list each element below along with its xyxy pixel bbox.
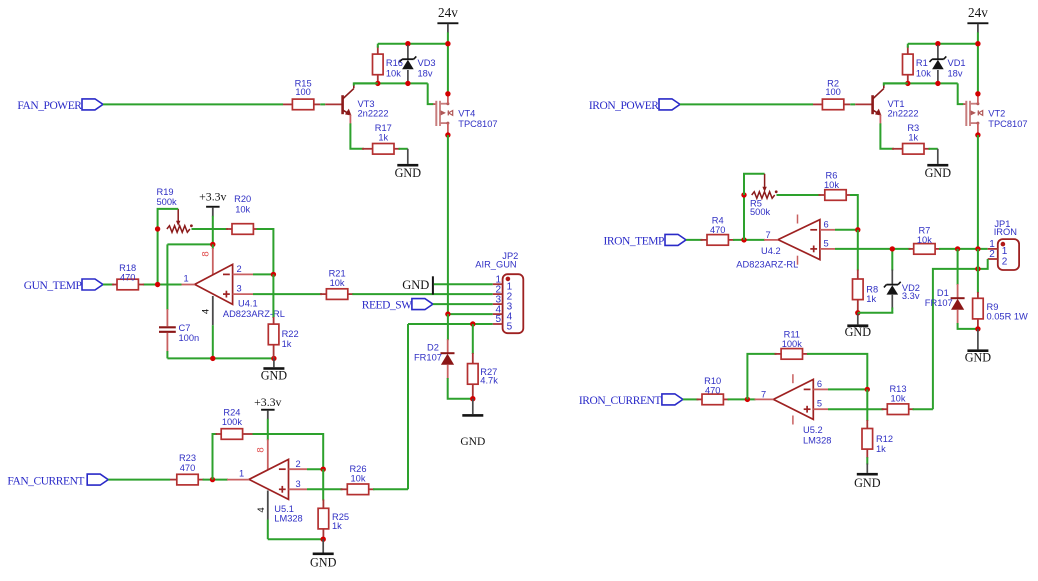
resistor R15 xyxy=(283,78,343,109)
junction VT4 drain xyxy=(445,91,450,96)
resistor R3 xyxy=(892,123,930,154)
op-amp U5.2 pin5 lead xyxy=(813,408,828,410)
svg-text:R8: R8 xyxy=(866,284,878,294)
wire VT4 source down to JP2 pin4 node xyxy=(447,135,449,314)
svg-text:GND: GND xyxy=(402,278,429,292)
port FAN_CURRENT xyxy=(7,474,108,487)
svg-text:1k: 1k xyxy=(866,294,876,304)
junction R27 top / pin5 xyxy=(470,321,475,326)
op-amp U5.2 pin6 lead xyxy=(813,388,828,390)
wire VT3 emitter down to R17 xyxy=(350,123,364,148)
wire pin5 to R13 xyxy=(828,408,884,410)
wire gate jog down (right) xyxy=(958,83,964,104)
svg-text:U5.2: U5.2 xyxy=(803,425,823,435)
node +3.3v power symbol (upper left) xyxy=(199,190,226,245)
op-amp U5.1 output lead xyxy=(227,479,249,481)
svg-text:R6: R6 xyxy=(826,171,838,181)
ground under R12 xyxy=(866,457,868,464)
wire R13 to long vertical (right) xyxy=(913,408,933,410)
op-amp U4.1 pin3 lead xyxy=(233,293,253,295)
ground under R27 xyxy=(460,399,485,449)
junction top rail / 24v stem (right) xyxy=(975,41,980,46)
junction VT2 source xyxy=(975,132,980,137)
svg-text:8: 8 xyxy=(201,251,212,256)
node 24v power symbol (right) xyxy=(967,5,988,44)
svg-text:R11: R11 xyxy=(784,330,800,340)
svg-text:VT3: VT3 xyxy=(358,99,375,109)
svg-text:3.3v: 3.3v xyxy=(902,291,920,301)
svg-text:R24: R24 xyxy=(223,408,240,418)
svg-text:1: 1 xyxy=(239,469,244,479)
svg-text:1k: 1k xyxy=(908,133,918,143)
svg-text:+3.3v: +3.3v xyxy=(199,190,226,204)
resistor R10 xyxy=(697,376,730,405)
wire IRON_TEMP to R4 xyxy=(686,239,703,241)
wire pin3 to R26 xyxy=(307,488,343,490)
wire D2 to GND node xyxy=(448,378,473,399)
svg-text:GND: GND xyxy=(310,556,337,570)
svg-text:GND: GND xyxy=(925,166,952,180)
op-amp U4.2 power stubs xyxy=(797,215,799,265)
svg-text:FAN_CURRENT: FAN_CURRENT xyxy=(7,475,84,487)
wire FAN_POWER to R15 xyxy=(103,103,283,105)
svg-text:R1: R1 xyxy=(916,58,928,68)
svg-text:5: 5 xyxy=(824,239,829,249)
wire pin6 to R11 node xyxy=(828,388,867,390)
ground under R9 xyxy=(965,329,992,365)
wire FAN_CURRENT to R23 xyxy=(108,479,170,481)
wire R1 top corner xyxy=(907,44,909,48)
junction VD2 top / pin5 line xyxy=(890,246,895,251)
svg-text:100k: 100k xyxy=(222,417,243,427)
resistor R23 xyxy=(170,453,204,485)
wire pin2 to R25 node xyxy=(307,468,323,470)
resistor R16 xyxy=(373,46,403,84)
ground under R3 xyxy=(925,149,952,180)
svg-text:GND: GND xyxy=(854,476,881,490)
junction U4.2 pin6 node xyxy=(855,227,860,232)
wire REED_SW to JP2 pin3 xyxy=(433,303,493,305)
junction U4.2 input node xyxy=(741,237,746,242)
svg-text:2: 2 xyxy=(1002,256,1008,267)
svg-text:500k: 500k xyxy=(750,207,771,217)
wire R26 to long vertical xyxy=(373,488,408,490)
port REED_SW xyxy=(362,299,433,312)
svg-text:VD3: VD3 xyxy=(418,58,436,68)
connector JP2 (AIR_GUN) xyxy=(475,251,523,333)
junction R25 bottom xyxy=(321,537,326,542)
resistor R25 xyxy=(318,469,349,539)
port IRON_POWER xyxy=(589,99,680,112)
wire VT1 emitter down to R3 xyxy=(880,123,894,148)
op-amp U4.2 output lead xyxy=(764,239,778,241)
wire 24v rail down to VT4 drain xyxy=(447,44,449,94)
net label GND on JP2 pin1 xyxy=(402,276,433,294)
op-amp U4.1 pin 4 stub xyxy=(201,296,213,358)
svg-text:VT2: VT2 xyxy=(988,108,1005,118)
wire R19 left vertical to output node xyxy=(157,229,159,285)
svg-text:6: 6 xyxy=(824,219,829,229)
wire R11 to pin6 corner xyxy=(807,354,867,390)
junction VT4 source xyxy=(445,132,450,137)
op-amp U4.1 pin 8 stub xyxy=(201,244,213,275)
svg-text:7: 7 xyxy=(766,230,771,240)
svg-text:GND: GND xyxy=(395,166,422,180)
junction R9 top node xyxy=(975,266,980,271)
resistor R21 xyxy=(320,269,354,300)
svg-text:500k: 500k xyxy=(157,197,178,207)
ground under R22 xyxy=(261,358,288,382)
svg-text:2: 2 xyxy=(989,249,995,260)
junction U5.2 pin6 node xyxy=(865,387,870,392)
wire R3 to GND stub xyxy=(929,148,938,150)
resistor R1 xyxy=(903,46,932,84)
capacitor C7 xyxy=(159,244,199,358)
wire main vertical pin1 to R9 xyxy=(977,249,979,270)
svg-text:U5.1: U5.1 xyxy=(274,504,294,514)
svg-text:2n2222: 2n2222 xyxy=(888,109,919,119)
resistor R12 xyxy=(862,389,893,458)
junction U5.2 input node xyxy=(745,397,750,402)
op-amp U4.2 xyxy=(736,220,820,270)
op-amp U5.1 pin 8 stub xyxy=(256,434,268,470)
junction R22 / bottom rail xyxy=(271,356,276,361)
resistor R2 xyxy=(813,78,873,109)
svg-text:470: 470 xyxy=(705,386,721,396)
wire 24v rail down to VT2 drain xyxy=(977,44,979,94)
junction D2/R27 GND node xyxy=(470,396,475,401)
wire pin2 to feedback node xyxy=(253,273,273,275)
svg-text:D2: D2 xyxy=(427,342,439,352)
junction R1 bottom xyxy=(905,81,910,86)
wire R6 to pin6 node xyxy=(850,195,858,230)
svg-text:AIR_GUN: AIR_GUN xyxy=(475,260,516,270)
transistor VT2 (p-MOSFET) xyxy=(963,94,1028,135)
svg-text:8: 8 xyxy=(256,447,267,452)
svg-text:LM328: LM328 xyxy=(803,435,831,445)
svg-text:470: 470 xyxy=(180,463,196,473)
wire GND label to JP2 pin1 xyxy=(434,283,493,285)
wire output node xyxy=(143,284,182,286)
wire GUN_TEMP to R18 xyxy=(103,284,114,286)
svg-text:AD823ARZ-RL: AD823ARZ-RL xyxy=(736,260,798,270)
wire R23 to U5.1 output node xyxy=(203,479,229,481)
svg-text:4: 4 xyxy=(201,309,212,314)
svg-text:IRON_CURRENT: IRON_CURRENT xyxy=(579,395,662,407)
svg-text:10k: 10k xyxy=(235,204,250,214)
wire R17 to GND stub xyxy=(399,148,408,150)
op-amp U4.1 output lead xyxy=(181,284,195,286)
wire VD2 bottom to R8 GND node xyxy=(858,311,893,314)
svg-text:5: 5 xyxy=(817,399,822,409)
op-amp U4.2 pin5 lead xyxy=(820,248,835,250)
svg-text:R23: R23 xyxy=(179,453,196,463)
wire feedback up to R24 xyxy=(213,434,218,480)
junction U4.1 output xyxy=(155,282,160,287)
wire bottom rail U5.1 xyxy=(268,538,323,540)
svg-text:GND: GND xyxy=(460,436,485,448)
resistor R13 xyxy=(882,384,915,415)
wire R24 to pin2 corner xyxy=(253,434,324,469)
wire pin8 rail (U4.1) xyxy=(167,243,212,245)
svg-text:LM328: LM328 xyxy=(274,513,302,523)
svg-text:100: 100 xyxy=(295,87,311,97)
svg-text:REED_SW: REED_SW xyxy=(362,299,412,311)
svg-text:10k: 10k xyxy=(386,68,401,78)
port IRON_CURRENT xyxy=(579,394,683,407)
wire IRON_POWER to R2 xyxy=(680,103,813,105)
wire pin3 to R21 xyxy=(253,293,322,295)
junction VD3 bottom xyxy=(405,81,410,86)
resistor R11 xyxy=(775,330,809,360)
op-amp U5.1 xyxy=(249,459,303,523)
svg-text:470: 470 xyxy=(710,225,726,235)
resistor R7 xyxy=(909,226,941,255)
junction main vertical / pin1 line xyxy=(975,246,980,251)
op-amp U5.1 pin 4 stub xyxy=(256,491,268,540)
resistor R24 xyxy=(216,408,253,440)
potentiometer R5 (500k) xyxy=(750,174,778,217)
svg-text:100: 100 xyxy=(825,87,841,97)
ground under R8 xyxy=(845,313,872,339)
wire D1 to GND node xyxy=(958,323,978,329)
resistor R4 xyxy=(701,215,735,245)
svg-text:R22: R22 xyxy=(282,329,299,339)
svg-text:10k: 10k xyxy=(917,235,932,245)
svg-text:VT1: VT1 xyxy=(888,99,905,109)
op-amp U5.2 power stubs xyxy=(792,374,794,424)
wire JP2 pin5 xyxy=(408,323,493,325)
svg-text:TPC8107: TPC8107 xyxy=(458,119,497,129)
wire gate jog down (left) xyxy=(428,83,434,104)
svg-text:10k: 10k xyxy=(824,180,839,190)
diode D2 (FR107) xyxy=(414,314,455,379)
svg-text:C7: C7 xyxy=(179,323,191,333)
resistor R8 xyxy=(853,230,879,313)
wire R7 to JP1 pin1 xyxy=(939,248,988,250)
svg-text:AD823ARZ-RL: AD823ARZ-RL xyxy=(223,309,285,319)
wire R9 node to long vertical (right) xyxy=(933,269,978,409)
svg-text:1k: 1k xyxy=(876,444,886,454)
junction main vertical / JP2 pin4 xyxy=(445,311,450,316)
svg-text:1k: 1k xyxy=(332,521,342,531)
junction top rail / 24v stem (left) xyxy=(445,41,450,46)
svg-text:FAN_POWER: FAN_POWER xyxy=(17,100,82,112)
svg-text:R13: R13 xyxy=(889,384,906,394)
diode D1 (FR107) xyxy=(925,249,965,324)
svg-text:3: 3 xyxy=(296,479,301,489)
wire feedback up to R11 xyxy=(747,354,776,400)
svg-text:1k: 1k xyxy=(378,133,388,143)
svg-text:24v: 24v xyxy=(438,5,458,20)
resistor R27 xyxy=(468,324,499,399)
svg-text:10k: 10k xyxy=(891,393,906,403)
connector JP1 (IRON) xyxy=(988,219,1019,270)
transistor VT3 xyxy=(343,85,389,124)
svg-text:GND: GND xyxy=(965,351,992,365)
diode VD3 (zener 18v) xyxy=(400,45,436,83)
diode VD2 (zener 3.3v) xyxy=(884,249,920,313)
junction R5 left xyxy=(741,192,746,197)
junction R16 bottom xyxy=(375,81,380,86)
svg-text:R10: R10 xyxy=(704,376,721,386)
junction VD1 bottom xyxy=(935,81,940,86)
svg-text:D1: D1 xyxy=(937,288,949,298)
op-amp U4.2 pin6 lead xyxy=(820,229,835,231)
svg-text:GUN_TEMP: GUN_TEMP xyxy=(24,280,82,292)
svg-text:6: 6 xyxy=(817,379,822,389)
transistor VT1 xyxy=(873,85,919,124)
op-amp U5.1 pin3 lead xyxy=(289,488,308,490)
wire VT1 collector to rail xyxy=(884,83,908,85)
svg-text:2: 2 xyxy=(296,459,301,469)
svg-text:FR107: FR107 xyxy=(925,298,953,308)
wire base rail VT1/R1/VD1/gate xyxy=(884,82,958,84)
junction R19 left xyxy=(155,226,160,231)
svg-text:2n2222: 2n2222 xyxy=(358,109,389,119)
op-amp U5.2 xyxy=(773,379,831,445)
junction top rail / VD3 (left) xyxy=(405,41,410,46)
wire pin6 to R6 node xyxy=(835,229,858,231)
port FAN_POWER xyxy=(17,99,103,112)
junction pin4 / bottom rail xyxy=(210,356,215,361)
op-amp U5.2 output lead xyxy=(755,398,774,400)
wire R5 to R6 xyxy=(777,194,821,196)
wire VT3 collector to rail xyxy=(354,83,378,85)
wire R16 top corner xyxy=(377,44,379,48)
op-amp U4.1 pin2 lead xyxy=(233,273,253,275)
svg-text:4: 4 xyxy=(256,507,267,512)
svg-text:5: 5 xyxy=(495,314,501,325)
junction D1/R9 GND node xyxy=(975,326,980,331)
svg-text:IRON: IRON xyxy=(994,227,1017,237)
wire JP2 pin4 from main vertical xyxy=(448,313,493,315)
junction U5.1 input node xyxy=(210,477,215,482)
svg-text:TPC8107: TPC8107 xyxy=(988,119,1027,129)
wire R19 to R20 xyxy=(192,228,229,230)
svg-text:1: 1 xyxy=(184,274,189,284)
svg-text:7: 7 xyxy=(761,389,766,399)
svg-text:R19: R19 xyxy=(157,187,174,197)
svg-text:10k: 10k xyxy=(916,68,931,78)
wire 24v top rail (right) xyxy=(908,43,978,45)
wire R5 loop top xyxy=(744,174,765,195)
resistor R9 xyxy=(973,269,1028,329)
svg-text:3: 3 xyxy=(237,284,242,294)
diode VD1 (zener 18v) xyxy=(930,45,966,83)
wire R20 to feedback corner xyxy=(257,229,274,274)
svg-text:R16: R16 xyxy=(386,58,403,68)
svg-text:5: 5 xyxy=(507,321,513,332)
junction R8 bottom GND node xyxy=(855,310,860,315)
node 24v power symbol (left) xyxy=(437,5,458,44)
op-amp U5.1 pin2 lead xyxy=(289,468,308,470)
svg-text:R20: R20 xyxy=(234,194,251,204)
wire IRON_CURRENT to R10 xyxy=(683,398,699,400)
svg-text:4.7k: 4.7k xyxy=(480,375,498,385)
resistor R17 xyxy=(362,123,400,154)
svg-text:GND: GND xyxy=(261,369,288,383)
wire base rail VT3/R16/VD3/gate xyxy=(354,82,428,84)
node +3.3v power symbol (lower left) xyxy=(254,395,281,434)
svg-text:18v: 18v xyxy=(948,68,963,78)
junction U4.1 pin2 node xyxy=(271,272,276,277)
wire JP1 pin2 jog to R9 node xyxy=(978,259,988,269)
junction top rail / VD1 xyxy=(935,41,940,46)
svg-text:R12: R12 xyxy=(876,434,893,444)
svg-text:100n: 100n xyxy=(179,333,200,343)
junction D1 top / pin1 line xyxy=(955,246,960,251)
wire 24v top rail (left) xyxy=(378,43,448,45)
svg-text:10k: 10k xyxy=(351,473,366,483)
wire pin5 corner down long vertical (left) xyxy=(407,324,409,489)
svg-text:R7: R7 xyxy=(918,226,930,236)
ground under R17 xyxy=(395,149,422,180)
wire R21 to JP2 pin2 xyxy=(352,293,493,295)
resistor R18 xyxy=(112,263,144,290)
svg-text:VD1: VD1 xyxy=(948,58,966,68)
wire R19 loop xyxy=(158,209,179,229)
junction +3.3v / pin8 rail xyxy=(210,242,215,247)
transistor VT4 (p-MOSFET) xyxy=(433,94,498,135)
wire bottom rail U4.1 xyxy=(167,357,274,359)
wire VT2 source down to JP1 pin1 node xyxy=(977,135,979,249)
svg-text:24v: 24v xyxy=(968,5,988,20)
svg-text:R4: R4 xyxy=(712,215,724,225)
resistor R22 xyxy=(268,274,298,358)
svg-text:470: 470 xyxy=(120,273,136,283)
port IRON_TEMP xyxy=(604,234,686,247)
svg-text:10k: 10k xyxy=(330,278,345,288)
port GUN_TEMP xyxy=(24,279,103,292)
op-amp U4.1 xyxy=(195,264,285,319)
svg-text:1k: 1k xyxy=(282,339,292,349)
svg-text:100k: 100k xyxy=(782,339,803,349)
svg-text:VT4: VT4 xyxy=(458,108,475,118)
junction U5.1 pin2 node xyxy=(321,467,326,472)
svg-text:IRON_TEMP: IRON_TEMP xyxy=(604,235,665,247)
svg-text:GND: GND xyxy=(845,325,872,339)
wire pin5 to R7 xyxy=(835,248,911,250)
wire R4 to U4.2 input node xyxy=(733,239,765,241)
junction VT2 drain xyxy=(975,91,980,96)
svg-text:+3.3v: +3.3v xyxy=(254,395,281,409)
potentiometer R19 (500k) xyxy=(157,187,193,232)
svg-text:IRON_POWER: IRON_POWER xyxy=(589,100,659,112)
resistor R20 xyxy=(226,194,259,234)
svg-text:R9: R9 xyxy=(987,302,999,312)
wire R10 to U5.2 input node xyxy=(728,398,756,400)
svg-text:0.05R 1W: 0.05R 1W xyxy=(987,312,1029,322)
svg-text:U4.1: U4.1 xyxy=(238,299,258,309)
resistor R26 xyxy=(341,464,375,495)
resistor R6 xyxy=(819,171,852,201)
svg-text:2: 2 xyxy=(237,264,242,274)
ground under R25 xyxy=(310,539,337,569)
svg-text:FR107: FR107 xyxy=(414,353,442,363)
svg-text:18v: 18v xyxy=(418,68,433,78)
svg-text:U4.2: U4.2 xyxy=(761,246,781,256)
wire R5 left vertical/loop xyxy=(743,195,745,240)
